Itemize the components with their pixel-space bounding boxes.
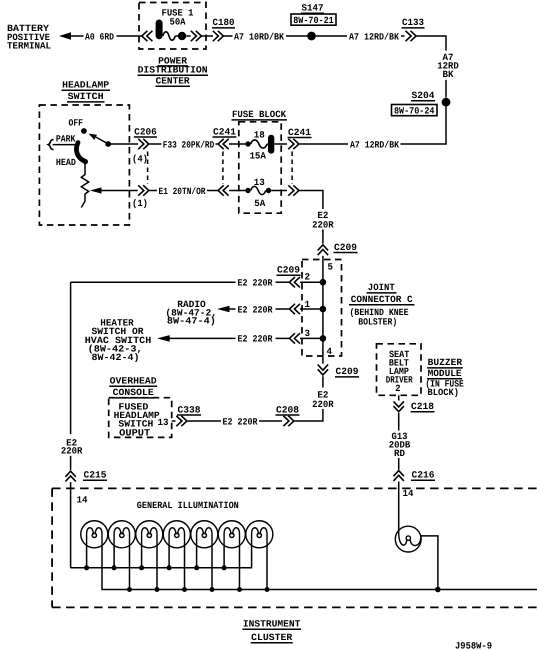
connector C218 bbox=[398, 395, 400, 400]
svg-text:HEADLAMP: HEADLAMP bbox=[62, 80, 109, 91]
svg-text:BUZZER: BUZZER bbox=[428, 357, 463, 368]
wire G13 20DB RD bbox=[398, 413, 400, 431]
wire upper rail bbox=[71, 546, 252, 568]
svg-text:14: 14 bbox=[77, 495, 88, 506]
svg-text:DISTRIBUTION: DISTRIBUTION bbox=[138, 65, 208, 76]
lamp L5 (general illumination) bbox=[191, 521, 218, 548]
wire E1 20TN/OR bbox=[150, 190, 158, 192]
lamp L3 left lead bbox=[141, 546, 143, 568]
rheostat wiper arrow bbox=[90, 187, 102, 193]
lamp L6 (general illumination) bbox=[218, 521, 245, 548]
svg-text:INSTRUMENT: INSTRUMENT bbox=[243, 619, 301, 630]
wire E2 220R (overhead console) bbox=[188, 420, 222, 422]
switch wiper lever bbox=[76, 143, 85, 162]
wire A7 12RD/BK bbox=[316, 35, 347, 37]
instrument cluster box bbox=[52, 487, 537, 489]
svg-text:J958W-9: J958W-9 bbox=[455, 640, 492, 650]
lamp L2 right lead bbox=[129, 546, 131, 590]
junction pin 3 bbox=[320, 335, 327, 342]
svg-text:FUSE BLOCK: FUSE BLOCK bbox=[232, 109, 286, 120]
svg-text:15A: 15A bbox=[249, 150, 266, 161]
lamp L3 (general illumination) bbox=[136, 521, 163, 548]
svg-text:JOINT: JOINT bbox=[368, 282, 395, 293]
svg-text:S204: S204 bbox=[412, 90, 435, 101]
svg-text:CONNECTOR C: CONNECTOR C bbox=[351, 294, 413, 305]
lamp L5 left lead bbox=[196, 546, 198, 568]
svg-text:C209: C209 bbox=[277, 265, 300, 276]
wire E2 220R (pin2 branch) bbox=[300, 281, 323, 283]
lamp L4 (general illumination) bbox=[163, 521, 190, 548]
svg-text:E2 220R: E2 220R bbox=[238, 278, 273, 289]
svg-text:S147: S147 bbox=[302, 3, 324, 14]
connector C338 bbox=[172, 420, 176, 422]
svg-text:C215: C215 bbox=[84, 470, 107, 481]
lamp L7 (general illumination) bbox=[246, 521, 273, 548]
svg-text:C208: C208 bbox=[276, 404, 299, 415]
svg-text:E2 220R: E2 220R bbox=[238, 334, 273, 345]
svg-text:50A: 50A bbox=[170, 17, 186, 28]
wire lamp L8 to lower rail bbox=[421, 536, 438, 590]
lamp L1 (general illumination) bbox=[81, 521, 108, 548]
svg-text:SWITCH: SWITCH bbox=[68, 91, 104, 102]
rheostat (panel dimmer) bbox=[81, 164, 88, 208]
wire E2 220R (below joint connector) bbox=[322, 376, 324, 387]
svg-text:5: 5 bbox=[328, 261, 334, 272]
power distribution center box bbox=[139, 3, 206, 50]
svg-text:A0 6RD: A0 6RD bbox=[85, 31, 114, 42]
buzzer module (seat belt lamp driver) box bbox=[377, 344, 422, 396]
svg-text:C209: C209 bbox=[334, 242, 357, 253]
connector (PDC in) bbox=[142, 31, 148, 41]
lamp L2 (general illumination) bbox=[108, 521, 135, 548]
fuse block box bbox=[239, 122, 281, 213]
svg-text:C180: C180 bbox=[213, 17, 235, 28]
svg-text:TERMINAL: TERMINAL bbox=[7, 41, 51, 52]
svg-text:A7 12RD/BK: A7 12RD/BK bbox=[349, 31, 399, 42]
wire E2 220R to radio bbox=[300, 308, 323, 310]
svg-text:E1 20TN/OR: E1 20TN/OR bbox=[159, 186, 206, 197]
svg-text:CLUSTER: CLUSTER bbox=[251, 632, 292, 643]
svg-text:3: 3 bbox=[305, 328, 311, 339]
connector (branch, pin 1) bbox=[289, 304, 295, 314]
svg-text:13: 13 bbox=[158, 417, 169, 428]
wire E2 220R (fuse 13 down) bbox=[300, 191, 323, 210]
lamp L1 left lead bbox=[86, 546, 88, 568]
svg-text:OVERHEAD: OVERHEAD bbox=[110, 376, 157, 387]
svg-text:GENERAL ILLUMINATION: GENERAL ILLUMINATION bbox=[137, 500, 239, 511]
svg-text:C241: C241 bbox=[213, 126, 236, 137]
joint connector internal bus bbox=[322, 259, 324, 356]
svg-text:BLOCK): BLOCK) bbox=[428, 387, 460, 398]
svg-text:8W-42-4): 8W-42-4) bbox=[92, 352, 140, 363]
svg-text:18: 18 bbox=[254, 130, 265, 141]
svg-text:8W-70-21: 8W-70-21 bbox=[293, 15, 334, 26]
wire E2 220R (left rail) bbox=[70, 282, 72, 434]
lamp L5 right lead bbox=[211, 546, 213, 590]
lamp L6 left lead bbox=[223, 546, 225, 568]
overhead console box bbox=[109, 398, 172, 438]
junction pin 1 bbox=[320, 306, 327, 313]
switch arm to OFF bbox=[96, 137, 107, 143]
svg-text:220R: 220R bbox=[61, 446, 83, 457]
svg-text:RD: RD bbox=[394, 448, 405, 459]
wire A0 6RD bbox=[71, 35, 84, 37]
svg-text:OUPUT: OUPUT bbox=[119, 427, 150, 438]
lamp L8 (cluster, fed by buzzer module) bbox=[395, 526, 421, 552]
svg-text:220R: 220R bbox=[312, 219, 334, 230]
wire to fuse block bbox=[401, 107, 447, 144]
svg-text:C241: C241 bbox=[288, 127, 311, 138]
headlamp switch box bbox=[39, 105, 129, 225]
lamp L2 left lead bbox=[113, 546, 115, 568]
connector C215 bbox=[65, 471, 75, 477]
fuse F1 element bbox=[156, 20, 163, 40]
wire F33 20PK/RD bbox=[150, 143, 162, 145]
lamp L6 right lead bbox=[239, 546, 241, 590]
svg-text:HEAD: HEAD bbox=[56, 157, 76, 168]
connector C216 bbox=[394, 471, 404, 477]
svg-text:2: 2 bbox=[395, 383, 401, 394]
svg-text:5A: 5A bbox=[254, 198, 265, 209]
wire lower rail bbox=[102, 546, 537, 590]
connector C209 (bottom) bbox=[322, 356, 324, 364]
lamp L3 right lead bbox=[156, 546, 158, 590]
battery terminal arrow bbox=[59, 32, 71, 40]
junction pin 2 bbox=[320, 279, 327, 286]
svg-text:MODULE: MODULE bbox=[428, 368, 462, 379]
svg-text:(4): (4) bbox=[132, 154, 148, 165]
svg-text:220R: 220R bbox=[312, 399, 334, 410]
svg-text:A7 12RD/BK: A7 12RD/BK bbox=[350, 139, 399, 150]
svg-text:A7 10RD/BK: A7 10RD/BK bbox=[234, 31, 284, 42]
svg-text:(1): (1) bbox=[132, 198, 148, 209]
svg-text:8W-47-4): 8W-47-4) bbox=[167, 315, 216, 326]
svg-text:8W-70-24: 8W-70-24 bbox=[394, 106, 435, 117]
lamp L4 right lead bbox=[184, 546, 186, 590]
svg-text:E2 220R: E2 220R bbox=[223, 416, 258, 427]
svg-text:OFF: OFF bbox=[69, 117, 84, 128]
svg-text:C338: C338 bbox=[178, 404, 201, 415]
svg-text:14: 14 bbox=[403, 488, 414, 499]
svg-text:BK: BK bbox=[443, 69, 454, 80]
lamp L7 right lead bbox=[266, 546, 268, 590]
wire pivot to C206 bbox=[111, 143, 138, 145]
svg-text:CONSOLE: CONSOLE bbox=[113, 387, 154, 398]
svg-text:E2 220R: E2 220R bbox=[238, 304, 273, 315]
svg-text:4: 4 bbox=[327, 346, 333, 357]
svg-text:C133: C133 bbox=[402, 17, 424, 28]
svg-text:C218: C218 bbox=[411, 401, 434, 412]
svg-text:CENTER: CENTER bbox=[156, 76, 190, 87]
joint connector C box bbox=[302, 260, 342, 357]
switch pivot bbox=[105, 141, 111, 147]
connector (PDC out) bbox=[186, 35, 190, 37]
lamp L4 left lead bbox=[168, 546, 170, 568]
svg-text:2: 2 bbox=[305, 272, 311, 283]
svg-text:PARK: PARK bbox=[56, 133, 76, 144]
svg-text:C206: C206 bbox=[134, 126, 157, 137]
svg-text:C209: C209 bbox=[336, 366, 359, 377]
svg-text:BOLSTER): BOLSTER) bbox=[358, 317, 397, 328]
wire E2 220R to heater/hvac switch bbox=[300, 337, 323, 339]
svg-text:F33 20PK/RD: F33 20PK/RD bbox=[163, 139, 215, 150]
connector (branch, pin 3) bbox=[289, 333, 295, 343]
connector C209 (top) bbox=[318, 245, 328, 251]
svg-text:C216: C216 bbox=[412, 470, 435, 481]
